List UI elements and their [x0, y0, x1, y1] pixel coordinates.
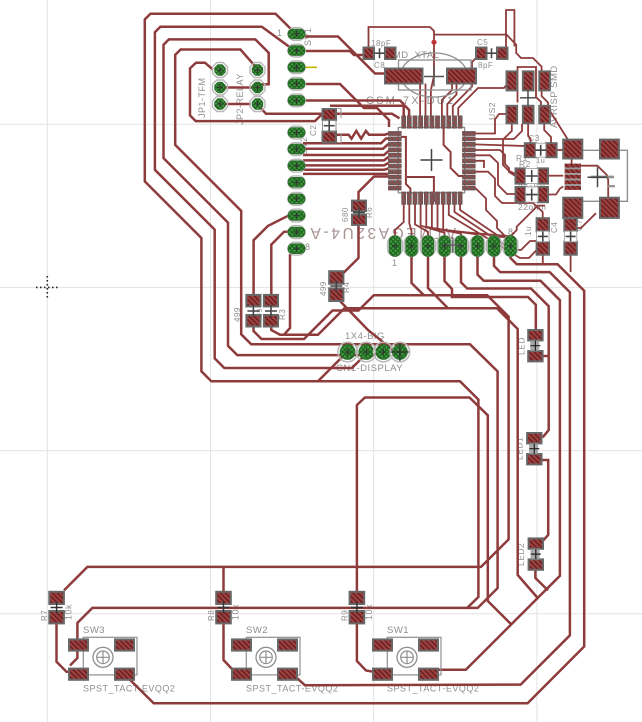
wire SV1-5 east: [306, 101, 404, 116]
switch SW3 pad TR: [115, 639, 134, 650]
header JP3 pad 3: [539, 71, 550, 90]
capacitor C6: [537, 218, 549, 255]
wire SV2-8 down: [284, 249, 297, 335]
wire R5 loop: [271, 308, 537, 598]
wire SV2 line f: [303, 169, 388, 170]
svg-text:C5: C5: [477, 38, 488, 47]
header J1 pad 8: [503, 236, 518, 256]
wire R8 top stub: [222, 567, 225, 592]
switch SW2 pad BL: [232, 669, 251, 680]
wire C5 hop: [506, 10, 514, 48]
resistor R1: [516, 187, 549, 202]
svg-text:SW1: SW1: [387, 625, 409, 636]
switch SW3 actuator: [93, 647, 113, 667]
wire JP1-2/JP2-2 link: [220, 86, 252, 89]
wire MCU internal 1: [444, 118, 465, 176]
svg-text:SW3: SW3: [83, 625, 105, 636]
wire MCU r1: [475, 114, 506, 134]
wire JP1-1 stub: [190, 63, 323, 121]
wire MCU r8: [475, 188, 513, 236]
svg-text:8pF: 8pF: [478, 61, 493, 70]
connector JP2 pad 3: [250, 97, 265, 112]
resistor R8: [216, 592, 231, 624]
svg-text:C4: C4: [550, 222, 559, 233]
wire MCU internal 2: [401, 137, 410, 202]
wire R9 rail: [357, 398, 511, 625]
wire R5 top feed: [271, 232, 290, 295]
header J1 pad 3: [421, 236, 436, 256]
header JP3 pad 1: [507, 71, 518, 90]
resistor R7: [49, 592, 64, 624]
header CN1 origin: [391, 343, 409, 361]
wire SV1-1 outer loop: [145, 14, 479, 609]
wire USB VBUS: [580, 166, 608, 203]
wire JP1-3/JP2-3 link: [220, 103, 251, 106]
header J1 pad 4: [437, 236, 452, 256]
USB U$2 shield pad bottom-left: [563, 198, 582, 218]
connector JP1 pad 3: [213, 97, 228, 112]
USB U$2 signal pins: [565, 164, 581, 190]
wire row pad7 loop: [294, 252, 570, 685]
header J1 pad 5: [454, 236, 469, 256]
capacitor C3: [525, 143, 557, 157]
wire JP2-3 east: [259, 106, 400, 118]
svg-text:LED1: LED1: [515, 437, 525, 460]
header CN1 pad 2: [357, 342, 377, 362]
switch SW1 pad BL: [373, 669, 392, 680]
header JP3 pad 6: [539, 106, 550, 124]
header CN1 pad 3: [374, 342, 394, 362]
wire SV2 line e: [305, 163, 388, 165]
wire MCU r5: [475, 155, 515, 194]
header CN1 pad 4: [390, 342, 410, 362]
wire xtal line4: [442, 84, 452, 116]
svg-text:499: 499: [319, 281, 328, 296]
wire MCU r6: [475, 161, 484, 168]
switch SW3 body: [83, 637, 137, 675]
wire JP3-6 to USB: [542, 90, 568, 146]
svg-text:JP2-RELAY: JP2-RELAY: [235, 73, 245, 125]
svg-text:SPST_TACT-EVQQ2: SPST_TACT-EVQQ2: [83, 684, 175, 694]
wire MCU r2: [475, 124, 522, 139]
USB U$2 shield pad top-left: [563, 140, 582, 159]
IC U1 pads: [388, 116, 475, 205]
header SV2 pad 1: [288, 126, 305, 139]
header JP3 pad 5: [523, 106, 534, 124]
resistor R6: [352, 201, 366, 225]
wire R3 loop: [64, 295, 509, 590]
wire MCU pin b8 to row pad 8: [443, 204, 510, 236]
junction via: [431, 40, 436, 45]
wire MCU pin b4 to row pad 4: [421, 204, 445, 236]
connector JP2 pad 2: [250, 80, 265, 95]
wire MCU r3: [475, 144, 525, 146]
header J1 pad 1: [388, 236, 403, 256]
svg-text:R3: R3: [278, 309, 287, 320]
header SV2 pad 3: [288, 159, 305, 172]
wire JP2-1 loop: [70, 50, 498, 666]
switch SW1 actuator: [397, 647, 417, 667]
header SV1 pad 3: [288, 61, 305, 74]
LED LED2: [529, 538, 543, 569]
wire R8-SW2: [224, 622, 235, 672]
header SV1 pad 4: [288, 77, 305, 90]
wire MCU t11 NE: [458, 85, 506, 116]
wire row pad5 loop: [461, 252, 549, 437]
header J1 origin: [445, 237, 461, 253]
crystal Q1 body: [399, 53, 472, 97]
wire C7 bottom stub: [570, 255, 572, 272]
wire MCU b10 SE: [455, 204, 537, 250]
svg-text:JP1-TFM: JP1-TFM: [197, 78, 207, 119]
wire JP3-5 down: [528, 123, 530, 143]
header J1 pad 2: [404, 236, 419, 256]
switch SW2 actuator: [256, 647, 276, 667]
switch SW1 pad TL: [373, 639, 392, 650]
wire MCU t9 NE: [447, 84, 456, 116]
switch SW1 pad TR: [419, 639, 438, 650]
LED LED: [528, 330, 542, 361]
svg-text:R8: R8: [207, 610, 216, 621]
header JP3 origin: [520, 90, 536, 106]
crystal Q1 pad right: [447, 69, 476, 84]
wire row pad8 loop: [127, 252, 584, 703]
svg-text:R7: R7: [40, 610, 49, 621]
svg-text:1: 1: [277, 28, 283, 38]
resistor R5: [264, 295, 278, 327]
capacitor C7: [564, 218, 576, 255]
resistor R3: [246, 295, 260, 327]
svg-text:C8: C8: [374, 61, 385, 70]
header SV1 pad 1: [288, 28, 305, 41]
wire USB BR exit: [572, 213, 596, 228]
wire SV1-1 east: [305, 37, 387, 74]
switch SW3 pad BR: [115, 669, 134, 680]
header JP3 pad 4: [507, 106, 518, 124]
wire R3 top feed: [254, 215, 297, 294]
connector JP2 pad 1: [250, 63, 265, 78]
switch SW3 pad BL: [69, 669, 88, 680]
USB U$2 origin: [588, 167, 608, 187]
svg-text:R9: R9: [340, 610, 349, 621]
switch SW2 pad BR: [278, 669, 297, 680]
svg-text:680: 680: [341, 207, 350, 222]
connector JP1 pad 1: [213, 63, 228, 78]
wire xtal line2: [425, 84, 427, 116]
wire MCU pin b5 to row pad 5: [426, 204, 461, 236]
wire LED1-LED2 chain: [540, 460, 548, 541]
wire LED feed: [445, 252, 536, 330]
header SV2 pad 2: [288, 143, 305, 156]
wire C3-USB: [556, 149, 564, 151]
wire R6 top: [359, 177, 389, 202]
wire LED2 bottom join: [535, 569, 548, 591]
header SV1 pad 5: [288, 94, 305, 107]
USB U$2 outline: [582, 150, 628, 201]
resistor R4: [329, 271, 343, 301]
svg-text:C2: C2: [309, 125, 318, 136]
wire JP3-4 down: [503, 123, 516, 174]
switch SW3 pad TL: [69, 639, 88, 650]
USB U$2 shield pad bottom-right: [600, 198, 619, 218]
wire MCU pin b7 to row pad 7: [438, 204, 495, 236]
wire MCU pin b2 to row pad 2: [409, 204, 411, 236]
wire JP3 hop: [518, 67, 542, 106]
wire MCU b11 SE: [460, 204, 545, 237]
wire SV2 line d: [303, 157, 388, 160]
wire R4 to CN1-4: [338, 299, 400, 352]
wire MCU t10 NE: [453, 56, 481, 116]
switch SW2 pad TR: [278, 639, 297, 650]
header J1 pad 6: [470, 236, 485, 256]
IC U1 ATMEGA32U4 body: [398, 127, 464, 192]
switch SW2 body: [246, 637, 300, 675]
connector JP1 pad 2: [213, 80, 228, 95]
resistor R2: [516, 168, 549, 183]
svg-text:10k: 10k: [64, 604, 74, 620]
wire MCU b9 SE: [449, 204, 537, 258]
switch SW1 body: [387, 637, 441, 675]
wire LED-LED1 chain: [540, 355, 548, 358]
wire MCU pin b1 to row pad 1: [395, 204, 404, 236]
wire SV1-4 east: [306, 84, 389, 127]
wire xtal to AVRISP: [434, 35, 542, 72]
wire under-xtal line2: [330, 106, 409, 116]
wire row pad3 stub: [428, 252, 448, 308]
header SV2 pad 4: [288, 176, 305, 189]
wire row pad2 stub: [412, 252, 425, 295]
wire MCU internal 3: [407, 177, 434, 202]
switch SW1 pad BR: [419, 669, 438, 680]
svg-text:8: 8: [305, 242, 311, 252]
airwire SV1-3: [297, 66, 317, 68]
wire R9-SW1: [357, 621, 373, 672]
wire R1-USB: [548, 187, 563, 195]
header CN1 pad 1: [338, 342, 358, 362]
header SV2 pad 7: [288, 226, 305, 239]
wire R2-USB: [548, 175, 563, 177]
wire SV2 line b: [305, 144, 388, 149]
svg-text:10k: 10k: [364, 604, 374, 620]
crystal Q1 origin: [424, 67, 444, 87]
USB U$2 shield pad top-right: [600, 140, 619, 159]
IC U1 origin: [421, 149, 443, 171]
wire MCU pin b3 to row pad 3: [415, 204, 428, 236]
wire SV2 line g: [303, 173, 388, 176]
svg-text:1u: 1u: [524, 226, 533, 236]
switch SW2 pad TL: [232, 639, 251, 650]
wire C6 top NW: [521, 203, 543, 218]
wire JP2-2 loop: [164, 39, 384, 355]
wire xtal line3: [431, 76, 434, 116]
wire MCU r4: [475, 150, 515, 176]
wire USB TL-block: [571, 154, 573, 166]
capacitor C8: [364, 48, 396, 60]
header SV1 pad 2: [288, 44, 305, 57]
capacitor C2: [323, 109, 342, 143]
header SV2 pad 8: [288, 242, 305, 255]
LED LED1: [527, 433, 541, 464]
wire C6 bottom stub: [542, 255, 544, 265]
header SV2 pad 6: [288, 209, 305, 222]
wire C8 net: [369, 27, 435, 76]
wire MCU r7: [475, 172, 521, 203]
wire R7-SW3: [57, 622, 71, 672]
crystal Q1 pad left: [385, 69, 423, 84]
wire zigzag C2 to MCU: [336, 131, 388, 139]
wire SV2 line a: [303, 139, 388, 144]
resistor R9: [350, 592, 365, 624]
capacitor C5: [476, 48, 508, 60]
wire xtal line1: [419, 84, 421, 116]
wire JP3-6 down: [544, 123, 551, 143]
origin marker: [36, 276, 59, 299]
header J1 pad 7: [487, 236, 502, 256]
wire SV1-2 east: [306, 51, 364, 55]
wire R6 bottom to R4: [338, 225, 359, 273]
svg-text:1: 1: [392, 258, 398, 268]
header SV2 pad 5: [288, 193, 305, 206]
wire SV1-2 loop: [155, 27, 366, 368]
wire row pad6 loop: [439, 252, 560, 670]
svg-text:SW2: SW2: [246, 625, 268, 636]
svg-text:10k: 10k: [231, 604, 241, 620]
header JP3 pad 2: [523, 71, 534, 90]
wire SV2 line c: [303, 151, 388, 155]
wire MCU pin b6 to row pad 6: [432, 204, 478, 236]
wire branch to CN1 pad1: [318, 352, 348, 381]
